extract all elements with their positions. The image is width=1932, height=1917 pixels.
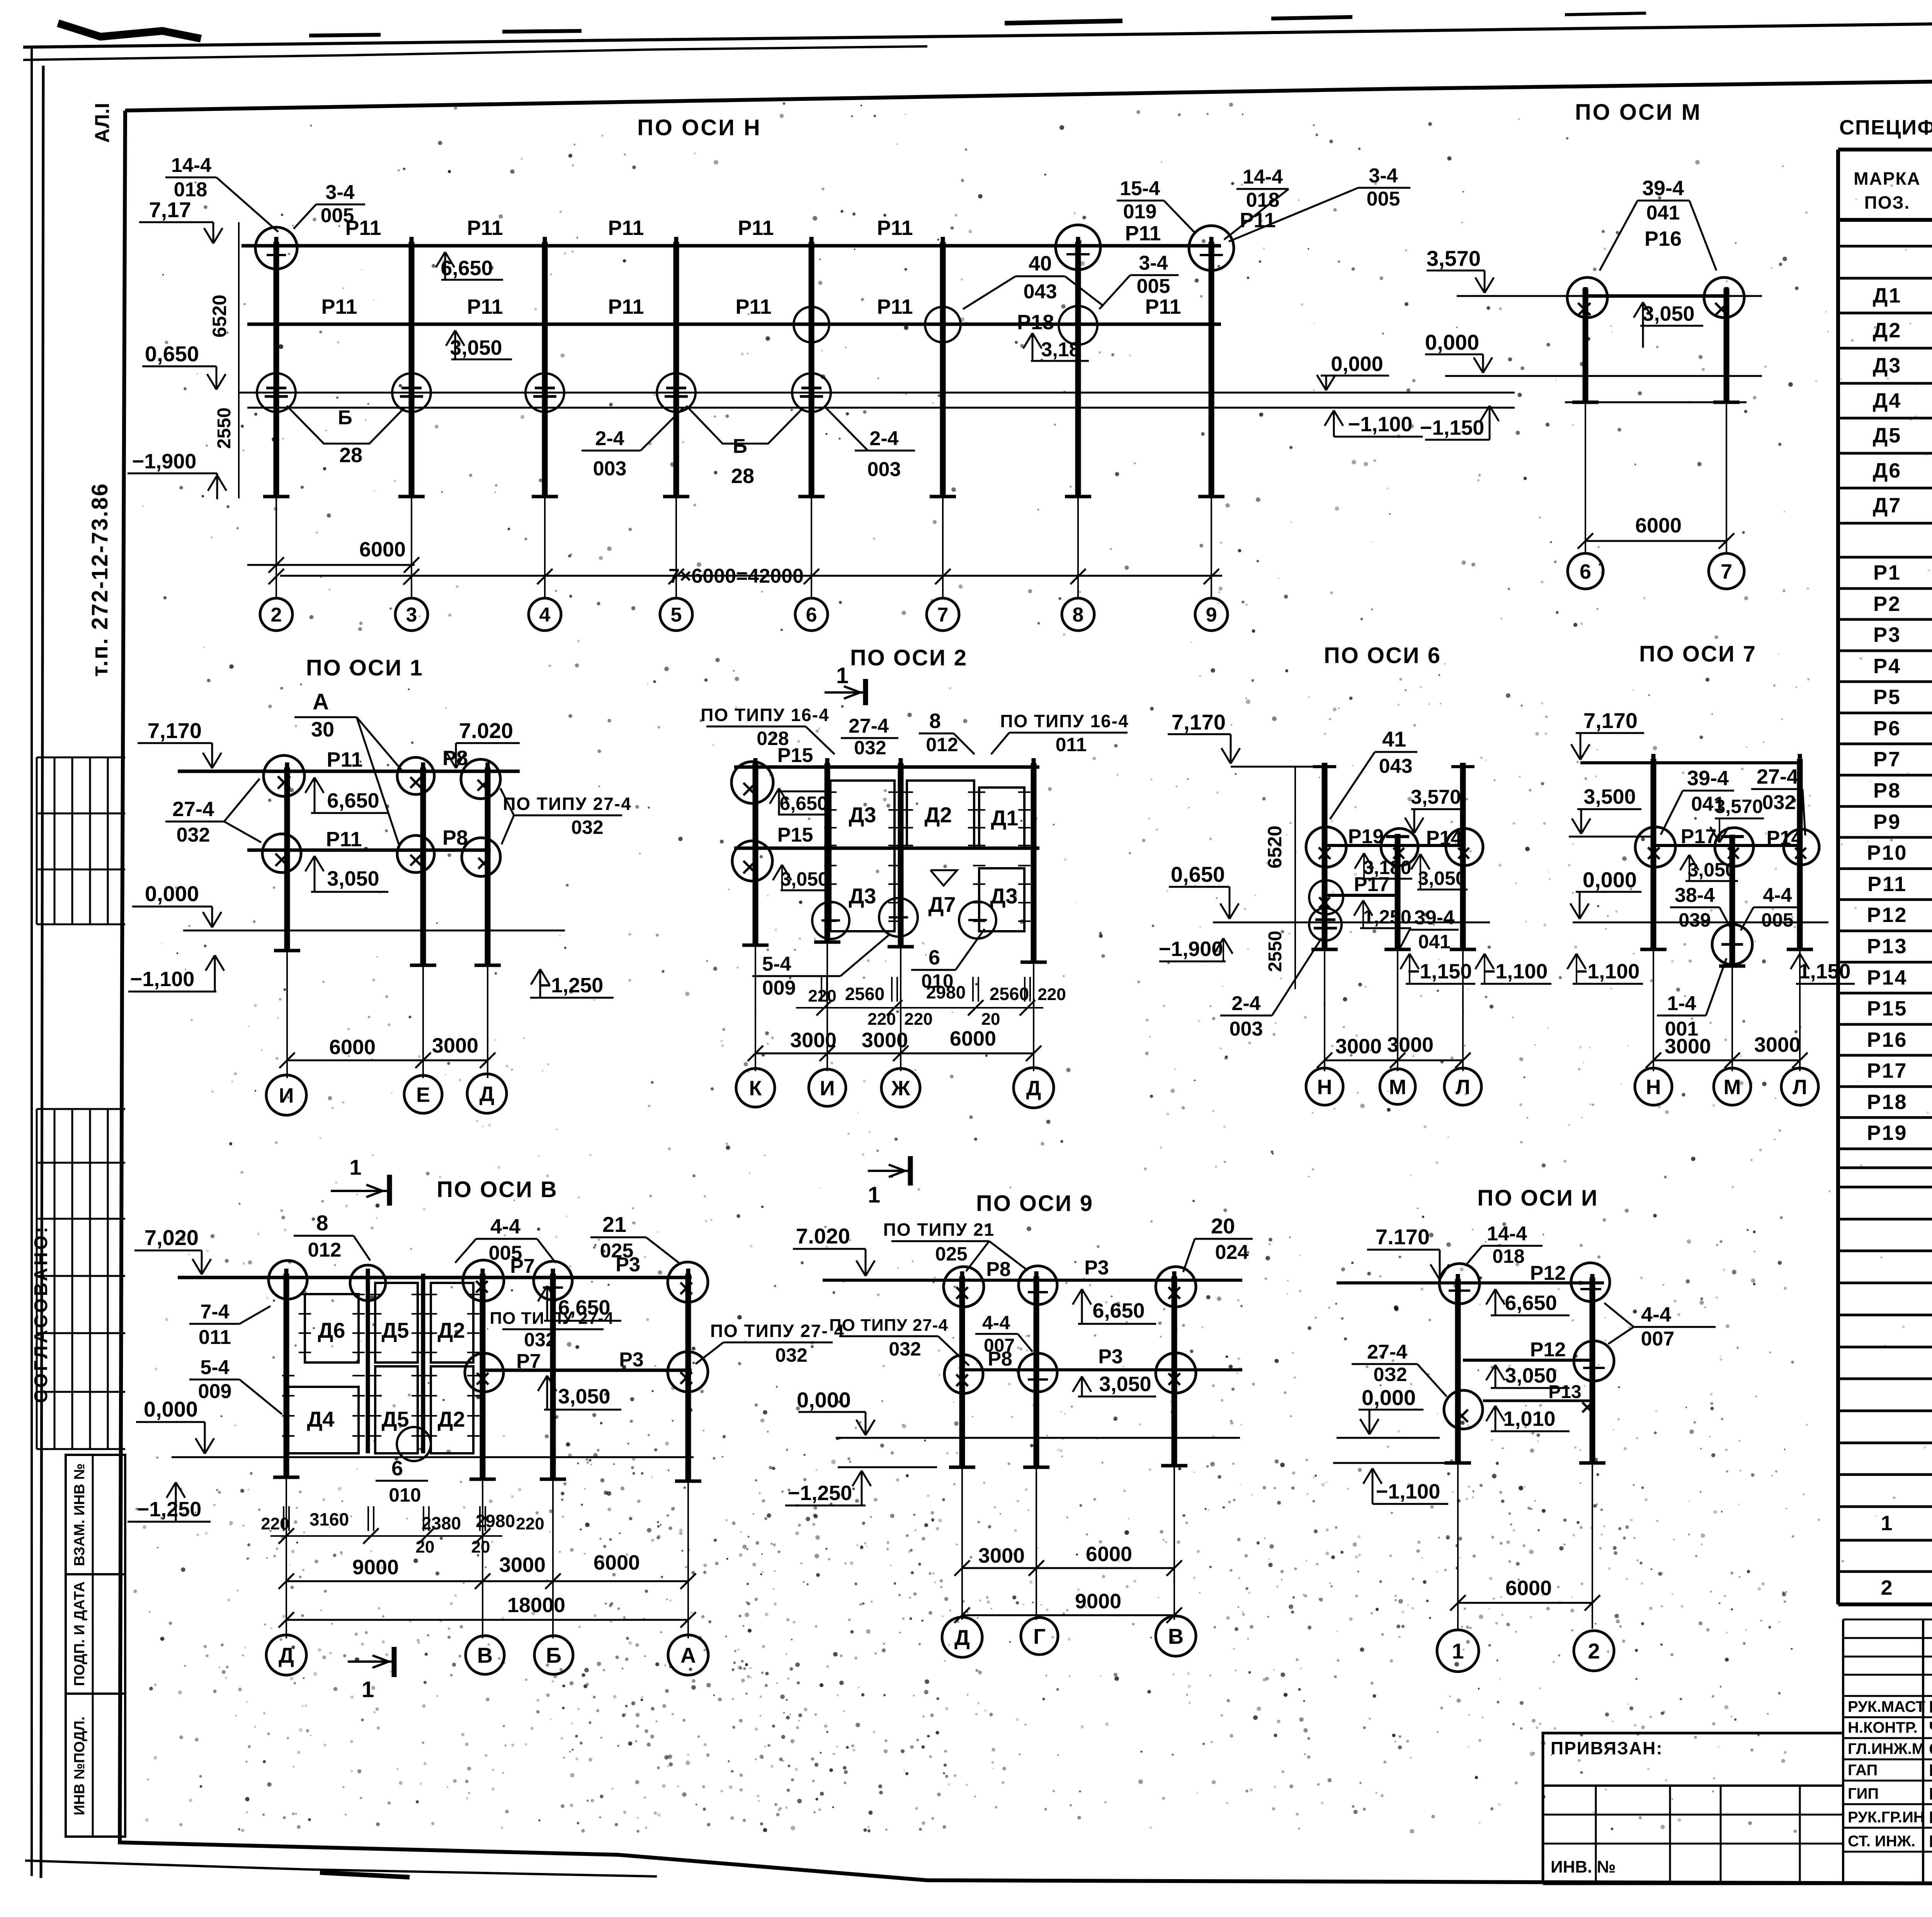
svg-text:18000: 18000	[507, 1594, 565, 1617]
ground line	[183, 930, 565, 932]
svg-text:3000: 3000	[1335, 1035, 1382, 1058]
svg-text:220: 220	[867, 1010, 896, 1029]
svg-text:6: 6	[929, 946, 940, 969]
svg-text:Р11: Р11	[1145, 295, 1181, 318]
joint circle axis 7	[1704, 277, 1744, 318]
svg-text:АЛ.I: АЛ.I	[91, 103, 114, 143]
column Г	[1034, 1276, 1039, 1467]
left margin cell ПОДП И ДАТА	[66, 1574, 125, 1694]
svg-text:3,050: 3,050	[327, 867, 379, 890]
svg-text:−1,900: −1,900	[1159, 937, 1223, 961]
axis circle Л	[1781, 1068, 1818, 1105]
svg-text:6000: 6000	[1086, 1543, 1132, 1566]
column Л	[1460, 763, 1466, 949]
svg-text:Д3: Д3	[849, 803, 876, 827]
axis circle 7	[1709, 553, 1744, 589]
svg-text:Р11: Р11	[467, 216, 503, 240]
svg-text:2980: 2980	[476, 1511, 515, 1531]
foundation segment	[838, 1466, 937, 1468]
svg-text:Р11: Р11	[1240, 209, 1276, 232]
boxed level 6.650	[779, 791, 828, 815]
svg-text:007: 007	[984, 1335, 1015, 1356]
svg-text:009: 009	[762, 977, 796, 999]
svg-text:Р7: Р7	[1873, 748, 1901, 771]
svg-text:6000: 6000	[594, 1551, 640, 1574]
left margin cell ИНВ № ПОДЛ	[66, 1694, 125, 1837]
svg-text:Р15: Р15	[777, 824, 813, 846]
svg-text:2550: 2550	[1265, 931, 1286, 972]
joint circles beam1	[269, 1260, 307, 1299]
foundation line	[1565, 401, 1747, 403]
svg-text:2-4: 2-4	[595, 427, 624, 450]
svg-text:МАРКОВКИН: МАРКОВКИН	[1929, 1784, 1932, 1803]
svg-text:003: 003	[1230, 1018, 1263, 1040]
svg-text:0,000: 0,000	[1583, 867, 1637, 892]
svg-text:Р3: Р3	[1873, 623, 1901, 646]
column Ж	[898, 763, 904, 947]
ground line left	[1337, 1437, 1440, 1439]
svg-text:Р15: Р15	[777, 744, 813, 767]
names table	[1842, 1619, 1844, 1883]
svg-text:8: 8	[316, 1211, 328, 1235]
svg-text:1-4: 1-4	[1667, 992, 1696, 1015]
svg-text:Е: Е	[416, 1083, 430, 1106]
svg-text:Р13: Р13	[1867, 935, 1907, 958]
joint circles	[1635, 827, 1675, 867]
svg-text:МАРКА: МАРКА	[1854, 168, 1921, 189]
foundation circle x=715	[257, 373, 296, 412]
ladder ticks walls	[824, 791, 837, 793]
joint circles beam1	[944, 1267, 984, 1307]
column Д	[284, 1274, 289, 1477]
svg-text:7,020: 7,020	[145, 1225, 199, 1250]
beam row2	[962, 1368, 1242, 1371]
column И	[825, 763, 830, 942]
svg-text:ПОДП. И ДАТА: ПОДП. И ДАТА	[71, 1582, 88, 1686]
svg-text:14-4: 14-4	[171, 154, 211, 177]
svg-text:Р3: Р3	[1084, 1257, 1109, 1279]
column Н	[1322, 763, 1328, 949]
joint circles beam2	[465, 1353, 503, 1392]
svg-text:КРЕПИШ: КРЕПИШ	[1929, 1832, 1932, 1851]
column axis 5	[673, 242, 679, 497]
svg-text:−1,100: −1,100	[1575, 960, 1640, 983]
svg-text:РУК.МАСТ: РУК.МАСТ	[1848, 1698, 1925, 1715]
svg-text:Б: Б	[338, 407, 352, 429]
svg-text:005: 005	[321, 204, 354, 227]
svg-text:009: 009	[198, 1380, 232, 1403]
svg-text:Р19: Р19	[1867, 1121, 1907, 1145]
axis circle 6	[795, 598, 828, 631]
svg-text:1,010: 1,010	[1503, 1407, 1555, 1431]
page bottom edge wavy line	[25, 1861, 657, 1876]
scan dash artifacts top	[309, 35, 381, 36]
svg-text:043: 043	[1024, 281, 1057, 303]
svg-text:032: 032	[1762, 791, 1796, 814]
svg-text:3-4: 3-4	[1369, 165, 1398, 187]
axis circle 5	[660, 598, 692, 631]
svg-text:СПЕЦИФИКАЦИЯ К МОНТАЖНЫМ СХ: СПЕЦИФИКАЦИЯ К МОНТАЖНЫМ СХЕМАМ ЭЛЕМЕНТО…	[1839, 116, 1932, 139]
beam P17	[1325, 894, 1398, 897]
svg-text:Р11: Р11	[1125, 222, 1161, 245]
axis circle В	[1156, 1616, 1196, 1656]
ground line	[836, 1437, 1240, 1439]
svg-text:005: 005	[1367, 188, 1400, 210]
svg-text:9000: 9000	[352, 1556, 399, 1579]
column Е	[420, 767, 426, 965]
x circle on Н	[1309, 880, 1343, 914]
svg-text:Б: Б	[733, 435, 747, 458]
axis circle 2	[1574, 1631, 1614, 1671]
svg-text:6: 6	[1580, 560, 1591, 583]
svg-text:Р7: Р7	[510, 1255, 535, 1277]
svg-text:Г: Г	[1033, 1624, 1046, 1648]
foundation circles	[812, 902, 849, 939]
wall Д3 lower left	[830, 848, 895, 931]
scan noise	[1206, 113, 1209, 115]
left margin stamp grid 1	[37, 757, 125, 759]
svg-text:ПРИВЯЗАН:: ПРИВЯЗАН:	[1551, 1738, 1663, 1758]
svg-text:20: 20	[1211, 1214, 1235, 1238]
axis circle В	[466, 1636, 504, 1674]
joint circle axis 8 beam2	[1059, 306, 1097, 345]
svg-text:220: 220	[261, 1514, 289, 1533]
svg-text:ИНВ. №: ИНВ. №	[1551, 1857, 1616, 1876]
svg-text:28: 28	[339, 444, 362, 467]
svg-text:ПО ОСИ 2: ПО ОСИ 2	[850, 645, 968, 670]
svg-text:ПО ТИПУ 27- 4: ПО ТИПУ 27- 4	[710, 1321, 845, 1341]
column Н	[1651, 759, 1656, 949]
svg-text:3,050: 3,050	[558, 1385, 610, 1408]
svg-text:Р11: Р11	[877, 216, 913, 240]
svg-text:В: В	[1168, 1624, 1184, 1648]
svg-text:ЧЕСОВА: ЧЕСОВА	[1929, 1718, 1932, 1737]
svg-text:2560: 2560	[845, 984, 884, 1004]
axis circle Л	[1444, 1068, 1481, 1105]
svg-text:Д6: Д6	[1873, 459, 1902, 482]
wall Д2 lower	[431, 1366, 473, 1453]
axis circle Ж	[881, 1068, 920, 1107]
beam P11 level 3.050	[247, 323, 1221, 326]
svg-text:6,650: 6,650	[327, 789, 379, 812]
svg-text:20: 20	[471, 1538, 490, 1556]
joint circles beam2	[944, 1355, 983, 1393]
joint circle axis 7 beam2	[925, 307, 961, 342]
svg-text:ПО ТИПУ 16-4: ПО ТИПУ 16-4	[701, 705, 829, 725]
svg-text:Д5: Д5	[381, 1407, 409, 1431]
svg-text:И: И	[279, 1084, 294, 1107]
column М	[1730, 835, 1735, 966]
wall Д5 upper	[375, 1283, 418, 1362]
svg-text:Д7: Д7	[1873, 494, 1902, 517]
axis circle 7	[927, 598, 959, 631]
svg-text:032: 032	[854, 737, 886, 759]
svg-text:Р15: Р15	[1867, 997, 1907, 1020]
svg-text:Р11: Р11	[1867, 873, 1907, 896]
svg-text:3000: 3000	[1387, 1033, 1434, 1056]
svg-text:Р3: Р3	[616, 1254, 640, 1276]
svg-text:Р4: Р4	[1873, 655, 1901, 678]
column axis 9	[1209, 242, 1214, 497]
svg-text:3-4: 3-4	[1139, 252, 1168, 274]
svg-text:Р11: Р11	[608, 216, 644, 240]
column axis 2	[274, 242, 279, 497]
column В	[480, 1274, 486, 1479]
svg-text:3000: 3000	[978, 1544, 1025, 1567]
svg-text:ПОЗ.: ПОЗ.	[1864, 192, 1910, 213]
svg-text:1: 1	[349, 1155, 361, 1179]
left margin stamp grid 2	[37, 1108, 125, 1110]
wall Д3 lower right	[979, 868, 1024, 931]
svg-text:К: К	[749, 1077, 762, 1100]
svg-text:019: 019	[1123, 201, 1157, 223]
svg-text:Р16: Р16	[1645, 227, 1682, 250]
svg-text:27-4: 27-4	[1757, 765, 1798, 788]
axis circle Д	[942, 1617, 982, 1657]
joint circle axis 6 beam2	[794, 307, 829, 342]
svg-text:Р5: Р5	[1873, 685, 1901, 709]
svg-text:018: 018	[174, 179, 207, 201]
svg-text:ИНВ №ПОДЛ.: ИНВ №ПОДЛ.	[71, 1716, 88, 1815]
svg-text:012: 012	[308, 1239, 342, 1261]
svg-text:Р11: Р11	[321, 295, 357, 318]
svg-text:Р11: Р11	[738, 216, 774, 240]
svg-text:2-4: 2-4	[1231, 992, 1260, 1015]
svg-text:032: 032	[571, 816, 603, 838]
svg-text:3,500: 3,500	[1583, 785, 1636, 808]
svg-text:6000: 6000	[359, 538, 406, 561]
svg-text:т.п. 272-12-73.86: т.п. 272-12-73.86	[87, 483, 112, 677]
svg-text:7: 7	[1721, 560, 1732, 583]
axis circle А	[668, 1635, 708, 1675]
svg-text:Р8: Р8	[442, 747, 468, 770]
svg-text:1: 1	[1452, 1639, 1464, 1663]
column М	[1395, 834, 1401, 949]
svg-text:011: 011	[199, 1326, 231, 1349]
wall Д5 lower	[375, 1366, 418, 1453]
svg-text:−1,100: −1,100	[1483, 960, 1548, 983]
column Б	[550, 1274, 556, 1479]
svg-text:−1,250: −1,250	[788, 1482, 852, 1505]
svg-text:Р2: Р2	[1873, 592, 1901, 616]
axis circle И	[266, 1075, 306, 1115]
column axis 7	[940, 242, 946, 497]
svg-text:Р17: Р17	[1867, 1059, 1907, 1082]
svg-text:27-4: 27-4	[1367, 1341, 1407, 1363]
svg-text:043: 043	[1379, 755, 1413, 777]
svg-text:14-4: 14-4	[1243, 166, 1283, 188]
svg-text:ПО ОСИ 1: ПО ОСИ 1	[306, 655, 423, 680]
svg-text:ГИП: ГИП	[1848, 1785, 1879, 1802]
svg-text:4-4: 4-4	[1763, 884, 1792, 907]
beam P11 level 6.650	[241, 244, 1221, 248]
svg-text:Д7: Д7	[928, 892, 956, 917]
svg-text:20: 20	[981, 1010, 1000, 1029]
svg-text:СТ. ИНЖ.: СТ. ИНЖ.	[1848, 1833, 1915, 1850]
beam row2	[247, 849, 491, 852]
svg-text:2: 2	[271, 604, 282, 626]
joint circle axis 8 beam1	[1056, 225, 1100, 270]
svg-text:Д: Д	[1026, 1077, 1041, 1100]
axis circle Д	[1014, 1068, 1054, 1108]
column 2	[1590, 1277, 1595, 1463]
svg-text:14-4: 14-4	[1487, 1223, 1527, 1245]
lower left grid	[1542, 1786, 1544, 1883]
column axis 3	[409, 242, 415, 497]
x circle column 1	[1444, 1390, 1483, 1429]
svg-text:Д: Д	[954, 1625, 970, 1650]
ground line 0.000	[239, 392, 1515, 394]
column В	[1172, 1276, 1177, 1466]
svg-text:20: 20	[416, 1538, 435, 1556]
svg-text:6000: 6000	[1635, 514, 1682, 537]
svg-text:Д1: Д1	[991, 806, 1018, 830]
page left edge inner line	[41, 66, 43, 1878]
joint circles beam1	[264, 755, 304, 796]
foundation circle x=1410	[526, 373, 564, 412]
svg-text:0,000: 0,000	[1362, 1385, 1416, 1410]
circle on column 2	[1574, 1341, 1614, 1381]
svg-text:Д6: Д6	[318, 1318, 345, 1342]
svg-text:2-4: 2-4	[869, 427, 898, 450]
svg-text:7,170: 7,170	[148, 718, 202, 743]
svg-text:40: 40	[1029, 252, 1052, 275]
svg-text:ГЛ.ИНЖ.М: ГЛ.ИНЖ.М	[1848, 1740, 1925, 1757]
joint circles beam1	[1439, 1264, 1480, 1304]
beam row1	[178, 1276, 692, 1279]
svg-text:6,650: 6,650	[440, 257, 493, 280]
svg-text:−1,150: −1,150	[1408, 960, 1472, 983]
svg-text:9: 9	[1206, 604, 1217, 626]
svg-text:2550: 2550	[214, 408, 235, 449]
left margin cell ВЗАМ ИНВ	[66, 1455, 125, 1574]
svg-text:ПО ОСИ В: ПО ОСИ В	[437, 1177, 558, 1202]
scan blob top left	[58, 23, 201, 39]
svg-text:Д4: Д4	[307, 1407, 334, 1431]
svg-text:2980: 2980	[926, 982, 966, 1002]
axis circle Д	[266, 1635, 306, 1675]
beam row1	[823, 1279, 1242, 1282]
svg-text:Д5: Д5	[381, 1318, 409, 1342]
svg-text:−1,150: −1,150	[1420, 416, 1485, 439]
svg-text:Р19: Р19	[1348, 825, 1384, 848]
svg-text:Р11: Р11	[467, 295, 503, 318]
axis circle 2	[260, 598, 293, 631]
svg-text:6520: 6520	[209, 294, 230, 337]
svg-text:6000: 6000	[950, 1027, 996, 1050]
svg-text:3000: 3000	[790, 1029, 837, 1052]
svg-text:220: 220	[1037, 985, 1066, 1004]
svg-text:ПО ОСИ Н: ПО ОСИ Н	[637, 115, 762, 140]
svg-text:СОГЛАСОВАНО:: СОГЛАСОВАНО:	[31, 1225, 51, 1403]
page top edge scan line	[23, 17, 1932, 47]
svg-text:Р11: Р11	[327, 748, 362, 771]
svg-text:39-4: 39-4	[1414, 907, 1454, 929]
top tie line	[1231, 766, 1325, 768]
beam row1	[734, 765, 1039, 769]
leader trapezoid Б 28 span5-6	[686, 406, 804, 444]
axis circle 1	[1437, 1630, 1479, 1672]
joint circle axis 6	[1567, 277, 1607, 318]
section mark 1 top	[825, 691, 866, 694]
svg-text:Р11: Р11	[735, 295, 771, 318]
svg-text:ПО ОСИ 6: ПО ОСИ 6	[1324, 643, 1441, 668]
svg-text:3,050: 3,050	[450, 336, 502, 359]
label ПРИВЯЗАН	[1543, 1733, 1843, 1786]
svg-text:1: 1	[362, 1677, 374, 1702]
svg-text:1,250: 1,250	[1363, 906, 1411, 928]
column К	[753, 763, 759, 945]
svg-text:3,050: 3,050	[1418, 867, 1466, 889]
svg-text:3000: 3000	[862, 1029, 908, 1052]
svg-text:5-4: 5-4	[762, 953, 791, 975]
wall column 1	[366, 1274, 370, 1453]
axis circle К	[736, 1068, 775, 1107]
svg-text:003: 003	[867, 458, 901, 481]
svg-text:220: 220	[516, 1514, 544, 1533]
svg-text:28: 28	[731, 464, 754, 488]
joint circles beam2	[262, 834, 301, 873]
svg-text:025: 025	[935, 1243, 967, 1265]
leader trapezoid Б 28 span2-3	[287, 406, 405, 444]
joint circle К beam2	[732, 841, 772, 881]
svg-text:39-4: 39-4	[1642, 177, 1684, 200]
svg-text:2560: 2560	[990, 984, 1029, 1004]
svg-text:Д2: Д2	[437, 1318, 465, 1342]
svg-text:−1,100: −1,100	[130, 968, 195, 991]
column axis 6	[1583, 288, 1588, 402]
svg-text:5: 5	[671, 604, 682, 626]
svg-text:ПО ОСИ 7: ПО ОСИ 7	[1639, 641, 1757, 667]
joint circle axis 9 beam1	[1189, 226, 1234, 270]
svg-text:3000: 3000	[1665, 1035, 1711, 1058]
svg-text:В: В	[477, 1643, 493, 1667]
svg-text:41: 41	[1382, 727, 1406, 751]
axis circle Д	[467, 1074, 507, 1113]
svg-text:Р14: Р14	[1867, 966, 1907, 989]
svg-text:ПО ТИ ПУ 27-4: ПО ТИ ПУ 27-4	[490, 1309, 614, 1328]
svg-text:3,18: 3,18	[1041, 338, 1080, 361]
beam row2	[734, 847, 1039, 850]
column И	[284, 767, 290, 951]
svg-text:Р11: Р11	[608, 295, 644, 318]
scan dash bottom left	[320, 1873, 410, 1877]
svg-text:005: 005	[1761, 909, 1793, 931]
axis circle М	[1380, 1069, 1415, 1104]
svg-text:ПО ТИПУ 16-4: ПО ТИПУ 16-4	[1000, 711, 1129, 731]
svg-text:6000: 6000	[329, 1036, 376, 1059]
svg-text:Н.КОНТР.: Н.КОНТР.	[1848, 1719, 1918, 1736]
wall Д2 upper	[431, 1283, 473, 1362]
beam row2	[1653, 844, 1800, 847]
wall Д4	[288, 1387, 359, 1453]
column axis 8	[1075, 242, 1081, 497]
svg-text:−1,900: −1,900	[132, 450, 197, 473]
axis circle Г	[1021, 1618, 1058, 1655]
svg-text:Ж: Ж	[891, 1077, 911, 1100]
svg-text:3,050: 3,050	[780, 868, 828, 890]
svg-text:ПО ТИПУ 21: ПО ТИПУ 21	[883, 1220, 995, 1240]
svg-text:6000: 6000	[1505, 1577, 1552, 1600]
svg-text:Д2: Д2	[924, 803, 952, 827]
svg-text:Р16: Р16	[1867, 1028, 1907, 1051]
wall column 2	[421, 1274, 425, 1453]
ladder ticks	[299, 1294, 311, 1295]
svg-text:6: 6	[806, 604, 817, 626]
svg-text:3-4: 3-4	[325, 181, 354, 204]
column axis 7	[1724, 288, 1730, 402]
svg-text:2: 2	[1588, 1639, 1600, 1663]
